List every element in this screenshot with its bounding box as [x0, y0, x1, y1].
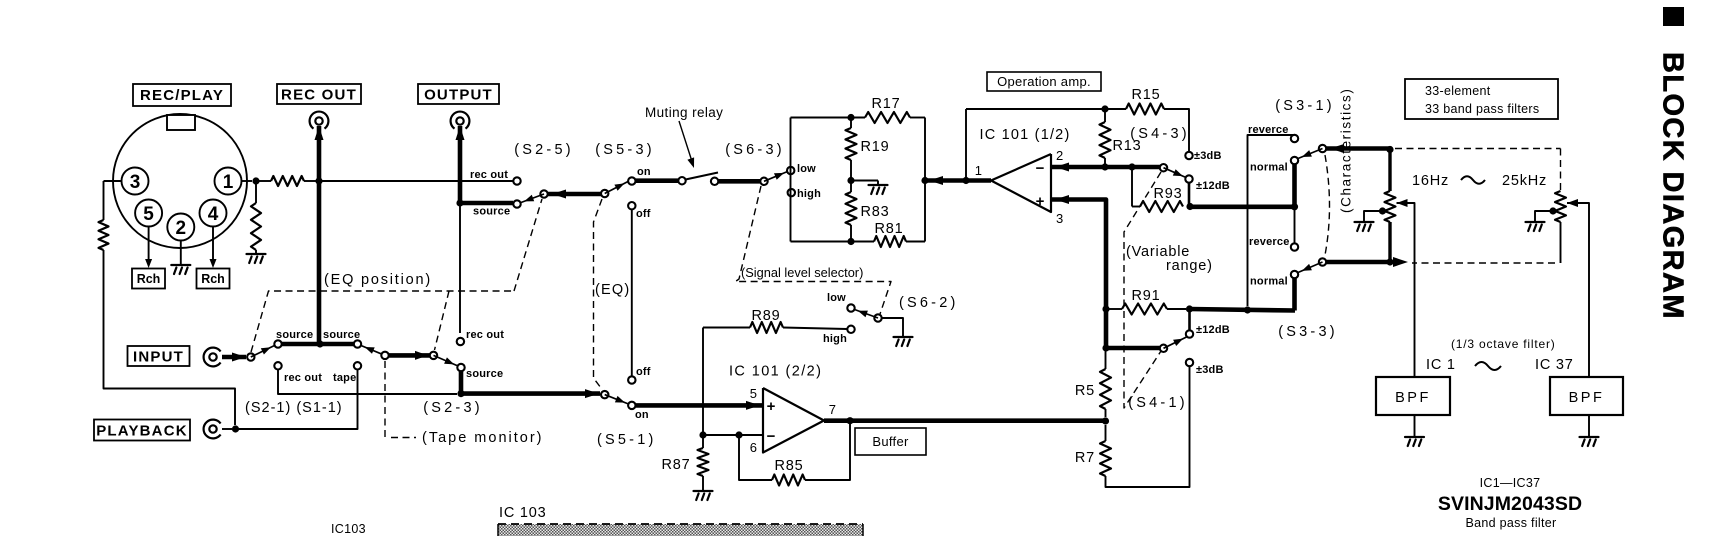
svg-text:(S4-3): (S4-3): [1130, 126, 1190, 142]
wire left rail down: [103, 181, 105, 220]
node op-amp output: [962, 177, 969, 184]
svg-text:high: high: [797, 188, 821, 200]
mech link tape monitor dashed: [384, 361, 386, 438]
resistor pin1 to ground: [251, 203, 261, 250]
contact high S6-3: [788, 189, 795, 196]
contact source S1-1: [354, 340, 361, 347]
svg-text:16Hz: 16Hz: [1412, 173, 1449, 189]
svg-text:rec out: rec out: [284, 372, 322, 384]
switch S6-3 blade to low: [764, 172, 788, 182]
arrow into pin2: [1055, 163, 1069, 172]
arrow into Rch right: [210, 259, 217, 268]
node R19/R83: [847, 177, 854, 184]
node R13 bottom: [1101, 163, 1108, 170]
svg-text:R87: R87: [662, 457, 691, 473]
switch S5-3 common contact: [601, 190, 608, 197]
svg-text:R91: R91: [1132, 288, 1161, 304]
resistor R15: [1126, 104, 1164, 115]
svg-text:4: 4: [208, 204, 219, 225]
contact source S2-1: [274, 340, 281, 347]
wire R17 to right rail: [910, 117, 925, 119]
svg-text:Rch: Rch: [137, 272, 161, 286]
wire plus12dB lower leg: [1188, 309, 1191, 331]
signal level resistor network left rail: [790, 118, 792, 242]
svg-text:(S5-3): (S5-3): [595, 142, 655, 158]
svg-text:Operation amp.: Operation amp.: [997, 74, 1091, 89]
svg-text:tape: tape: [333, 372, 356, 384]
wire minus input buffer: [703, 434, 763, 436]
svg-text:reverce: reverce: [1248, 124, 1289, 136]
contact normal S3-1: [1291, 157, 1298, 164]
node buffer output: [846, 417, 853, 424]
switch S6-2 blade: [855, 310, 879, 319]
Rch box left: [132, 269, 165, 289]
svg-text:(Characteristics): (Characteristics): [1339, 88, 1354, 213]
svg-text:REC/PLAY: REC/PLAY: [140, 87, 224, 104]
switch S2-5 common contact: [540, 190, 547, 197]
svg-text:SVINJM2043SD: SVINJM2043SD: [1438, 493, 1582, 515]
node buffer output joins: [1102, 417, 1109, 424]
arrow into pin3: [1055, 195, 1069, 204]
svg-text:1: 1: [223, 172, 234, 193]
ground R87: [694, 491, 713, 500]
connector REC/PLAY label box: [133, 84, 231, 106]
svg-text:(1/3 octave filter): (1/3 octave filter): [1451, 337, 1556, 351]
switch S6-2 common contact: [874, 314, 881, 321]
wire pin1 to junction: [242, 180, 253, 182]
arrow on wire pointing left to S2-5: [552, 190, 566, 199]
op-amp U2 IC101 2/2 buffer: [763, 388, 824, 453]
DIN pin 3: [122, 168, 149, 195]
contact on S5-1: [628, 402, 635, 409]
op-amp U1 IC101 1/2: [991, 154, 1051, 212]
thick wire OUTPUT to source contact: [460, 201, 513, 206]
svg-text:low: low: [797, 163, 816, 175]
svg-text:BPF: BPF: [1569, 390, 1605, 406]
resistor after pin1: [271, 176, 304, 186]
svg-text:1: 1: [975, 163, 982, 178]
svg-text:6: 6: [750, 440, 757, 455]
svg-text:Rch: Rch: [201, 272, 225, 286]
arrow up into OUTPUT jack: [456, 126, 465, 140]
svg-text:normal: normal: [1250, 162, 1288, 174]
wire pin4 down: [212, 227, 214, 263]
resistor R83: [850, 181, 852, 193]
node pin1 junction: [252, 177, 259, 184]
label 33-element box: [1405, 79, 1558, 119]
BPF box 1: [1376, 377, 1450, 415]
ground pin2: [171, 265, 190, 274]
contact S2-3 common: [430, 352, 437, 359]
mech link S2 dashed: [251, 291, 514, 352]
svg-text:(S2-1) (S1-1): (S2-1) (S1-1): [245, 400, 343, 416]
svg-text:±3dB: ±3dB: [1196, 364, 1224, 376]
svg-text:rec out: rec out: [466, 329, 504, 341]
node PLAYBACK: [232, 425, 239, 432]
ground under pin1 resistor: [255, 250, 257, 253]
thick wire INPUT to switch: [222, 355, 246, 360]
node S2-3 out: [457, 390, 464, 397]
wire resistor to REC OUT line: [304, 180, 319, 182]
node source bus: [316, 340, 323, 347]
node S4-1 tap: [1102, 344, 1109, 351]
svg-text:IC 101 (1/2): IC 101 (1/2): [980, 127, 1071, 143]
resistor left rail: [99, 220, 109, 250]
thick wire S2-5 to S5-3: [548, 192, 601, 197]
svg-text:(Signal level selector): (Signal level selector): [741, 265, 863, 280]
wire junction to resistor: [256, 180, 271, 182]
switch S2-1 blade: [251, 346, 275, 358]
svg-text:source: source: [323, 329, 360, 341]
contact S2-1 common: [247, 353, 254, 360]
ground BPF2: [1588, 415, 1590, 436]
switch S3-3 common contact: [1319, 258, 1326, 265]
pot 25kHz ground tap: [1549, 207, 1556, 214]
svg-text:±3dB: ±3dB: [1194, 150, 1222, 162]
node R91 right: [1186, 305, 1193, 312]
contact plus12dB S4-3: [1185, 175, 1192, 182]
wire R19 to node: [850, 160, 852, 181]
svg-text:R81: R81: [875, 221, 904, 237]
wire S6-2 to ground: [882, 318, 904, 336]
switch S2-3 blade: [434, 355, 459, 366]
node R17 left: [847, 114, 854, 121]
svg-text:+: +: [767, 398, 776, 415]
switch S6-3 common contact: [760, 178, 767, 185]
svg-text:33 band pass filters: 33 band pass filters: [1425, 102, 1539, 116]
svg-text:(S5-1): (S5-1): [597, 432, 657, 448]
svg-text:(S2-3): (S2-3): [423, 400, 483, 416]
svg-text:R15: R15: [1132, 87, 1161, 103]
svg-text:IC 1: IC 1: [1426, 357, 1456, 373]
svg-text:off: off: [636, 366, 651, 378]
node OUTPUT corner: [456, 199, 463, 206]
DIN pin 5: [135, 200, 162, 227]
node REC OUT on main wire: [315, 177, 322, 184]
ground pot 16Hz: [1355, 222, 1374, 231]
wire R93 left leg: [1131, 167, 1133, 207]
ground S6-2: [894, 337, 913, 346]
node R13 top: [1101, 105, 1108, 112]
svg-text:(S4-1): (S4-1): [1128, 395, 1188, 411]
contact off S5-1: [628, 376, 635, 383]
wire plus3dB down and around: [1106, 366, 1190, 487]
contact low S6-3: [787, 167, 794, 174]
svg-text:5: 5: [750, 386, 757, 401]
thick wire OUTPUT vertical: [458, 126, 463, 203]
switch S2-5 blade: [521, 194, 544, 203]
muting relay leader arrow: [679, 121, 693, 163]
potentiometer 16Hz: [1388, 150, 1391, 192]
node R85 tap: [735, 431, 742, 438]
svg-text:IC1—IC37: IC1—IC37: [1480, 476, 1541, 490]
contact reverce S3-3: [1291, 243, 1298, 250]
svg-text:(Tape monitor): (Tape monitor): [422, 430, 543, 446]
contact on S5-3: [628, 177, 635, 184]
svg-text:R19: R19: [861, 139, 890, 155]
resistor R91: [1122, 304, 1167, 315]
contact rec out S2-5: [513, 177, 520, 184]
contact plus12dB S4-1: [1186, 330, 1193, 337]
mech link S4 dashed: [1124, 172, 1161, 408]
ground BPF1: [1414, 415, 1416, 436]
svg-text:(S3-3): (S3-3): [1278, 324, 1338, 340]
svg-text:on: on: [637, 166, 651, 178]
node R81 left: [847, 238, 854, 245]
node filter top: [1386, 146, 1393, 153]
thick wire on to op-amp pin5: [635, 403, 763, 408]
DIN pin 4: [200, 200, 227, 227]
svg-text:±12dB: ±12dB: [1196, 180, 1230, 192]
svg-text:IC 37: IC 37: [1535, 357, 1574, 373]
wire R89 to high contact: [783, 328, 847, 330]
filter dashed box top: [1395, 148, 1561, 150]
thick wire R91 node to S3-3 rail: [1190, 309, 1296, 311]
wire pin1 junction down: [255, 181, 257, 203]
switch S5-3 blade to on: [605, 182, 628, 194]
svg-text:(S2-5): (S2-5): [514, 142, 574, 158]
label box REC OUT: [277, 84, 361, 104]
svg-text:(EQ): (EQ): [595, 282, 630, 298]
svg-text:PLAYBACK: PLAYBACK: [96, 423, 188, 440]
arrow into Rch left: [145, 259, 152, 268]
resistor R89: [750, 322, 783, 333]
switch S4-3 blade: [1164, 168, 1187, 178]
wire R83 to bottom: [850, 225, 852, 242]
svg-text:BPF: BPF: [1395, 390, 1431, 406]
svg-text:(S6-3): (S6-3): [725, 142, 785, 158]
muting relay blade open: [686, 173, 719, 180]
svg-text:source: source: [466, 368, 503, 380]
thick wire relay to S6-3: [718, 179, 761, 184]
thick wire S1-1 to S2-3: [388, 353, 430, 358]
resistor R19: [850, 118, 852, 129]
svg-text:R7: R7: [1075, 450, 1095, 466]
contact tape S1-1: [354, 362, 361, 369]
node network output: [921, 177, 928, 184]
thick wire normal S3-3 to rail: [1292, 278, 1297, 311]
svg-text:low: low: [827, 292, 846, 304]
svg-text:3: 3: [130, 172, 141, 193]
thick wire to S5-1 with arrow: [461, 391, 600, 396]
thick wire op-amp to network with arrow: [925, 178, 991, 183]
BPF box 2: [1550, 377, 1623, 415]
arrow into S3-1 common: [1330, 144, 1344, 153]
svg-text:7: 7: [829, 402, 836, 417]
DIN pin 1: [215, 168, 242, 195]
svg-text:normal: normal: [1250, 276, 1288, 288]
svg-text:−: −: [1036, 160, 1045, 177]
DIN pin 2: [167, 214, 194, 241]
filter dashed box right upper: [1560, 149, 1562, 192]
wire rec out S2-1 branch: [278, 369, 457, 394]
svg-text:INPUT: INPUT: [133, 349, 184, 366]
potentiometer 25kHz: [1560, 190, 1562, 192]
contact reverce S3-1: [1291, 135, 1298, 142]
contact relay right: [711, 178, 718, 185]
wire off to off: [631, 209, 633, 376]
node R91 left: [1102, 305, 1109, 312]
svg-text:R85: R85: [775, 458, 804, 474]
pot 25kHz wiper: [1567, 199, 1578, 207]
wire to R15: [1105, 108, 1126, 110]
switch S5-1 blade: [605, 395, 629, 404]
thick wire plus input: [1051, 200, 1106, 351]
contact source S2-5: [513, 200, 520, 207]
label tilde IC: [1475, 362, 1501, 370]
svg-text:off: off: [636, 208, 651, 220]
pot 16Hz wiper: [1397, 199, 1408, 207]
wire left rail to corner: [104, 250, 236, 425]
svg-text:range): range): [1166, 258, 1213, 274]
wire node down to reverce S3-3: [1294, 207, 1296, 243]
resistor R17: [865, 112, 910, 123]
contact S1-1 common: [381, 352, 388, 359]
thick source bus: [281, 342, 354, 347]
contact plus3dB S4-1: [1186, 359, 1193, 366]
node filter bottom: [1386, 258, 1393, 265]
switch S3-1 blade: [1298, 149, 1323, 159]
arrow up into REC OUT jack: [315, 126, 324, 140]
wire R89 left leg: [702, 328, 704, 436]
thick wire buffer output: [824, 418, 1106, 423]
label box OUTPUT: [418, 84, 499, 104]
wire rec-out branch on main line: [319, 180, 513, 182]
block diagram bullet square: [1663, 7, 1684, 26]
resistor R87: [698, 448, 709, 476]
wire pin5 down: [148, 227, 150, 263]
wire pin2 down: [180, 241, 182, 265]
svg-text:Buffer: Buffer: [872, 434, 909, 449]
switch S4-1 blade: [1164, 337, 1187, 348]
wire PLAYBACK to node: [222, 428, 232, 430]
ground mid network: [869, 185, 888, 194]
DIN connector body: [113, 114, 247, 248]
thick wire S2-3 down: [459, 371, 464, 395]
svg-text:IC 103: IC 103: [499, 505, 547, 521]
node R93 right: [1186, 203, 1193, 210]
svg-text:OUTPUT: OUTPUT: [424, 87, 493, 104]
svg-text:R17: R17: [872, 96, 901, 112]
thick wire S3-1 common to filter: [1326, 146, 1390, 151]
svg-text:source: source: [276, 329, 313, 341]
resistor R93: [1140, 201, 1183, 212]
thick wire to S4-1 common: [1106, 346, 1160, 351]
resistor R85: [772, 475, 805, 486]
svg-text:−: −: [767, 428, 776, 445]
node S3 mid: [1291, 203, 1298, 210]
arrow out to band pass filters: [1393, 257, 1408, 267]
svg-text:(S6-2): (S6-2): [899, 295, 959, 311]
thick wire on to relay: [635, 178, 679, 183]
svg-text:R89: R89: [752, 308, 781, 324]
svg-text:2: 2: [1056, 148, 1063, 163]
svg-text:R5: R5: [1075, 383, 1095, 399]
wire PLAYBACK to tape contact: [236, 369, 358, 429]
svg-text:Muting relay: Muting relay: [645, 105, 723, 120]
filter dashed box bottom: [1412, 262, 1555, 264]
node reverce rail bottom: [1244, 306, 1251, 313]
wire plus12dB down to node: [1188, 182, 1191, 206]
S3 left rail reverce wire: [1248, 135, 1295, 306]
network bottom wire: [791, 241, 875, 243]
svg-text:rec out: rec out: [470, 169, 508, 181]
thick wire S3-3 common right: [1326, 260, 1390, 265]
resistor R13: [1104, 109, 1106, 122]
wire R15 to corner: [1164, 109, 1189, 152]
svg-text:3: 3: [1056, 211, 1063, 226]
svg-text:33-element: 33-element: [1425, 84, 1491, 98]
wire R85 feedback: [805, 421, 850, 480]
IC103 hatched bar: [498, 524, 863, 536]
svg-text:5: 5: [143, 204, 154, 225]
resistor R7: [1100, 441, 1111, 476]
mech link S3 dashed: [1325, 155, 1330, 255]
svg-text:on: on: [635, 409, 649, 421]
thick wire R93 node to S3-1 normal rail: [1190, 205, 1295, 210]
svg-text:R83: R83: [861, 204, 890, 220]
jack OUTPUT: [456, 117, 463, 124]
thick wire minus input: [1051, 165, 1160, 170]
wire node to ground: [851, 180, 878, 182]
contact S5-1 common: [601, 391, 608, 398]
network top wire: [791, 117, 866, 119]
contact off S5-3: [628, 202, 635, 209]
jack PLAYBACK: [209, 425, 216, 432]
switch S1-1 blade: [361, 346, 385, 356]
contact relay left: [678, 177, 685, 184]
node R93 top: [1128, 163, 1135, 170]
ground pot 25kHz: [1526, 222, 1545, 231]
svg-text:IC 101 (2/2): IC 101 (2/2): [729, 364, 822, 380]
svg-text:IC103: IC103: [331, 522, 366, 536]
network right rail: [924, 118, 926, 242]
switch S3-3 blade: [1298, 262, 1323, 273]
svg-text:reverce: reverce: [1249, 236, 1290, 248]
contact plus3dB S4-3: [1185, 152, 1192, 159]
contact rec out lower: [457, 338, 464, 345]
contact high S6-2: [847, 326, 854, 333]
svg-text:high: high: [823, 333, 847, 345]
wire OUTPUT thin down to rec out contact: [459, 203, 461, 333]
contact source S2-3: [457, 364, 464, 371]
label box Operation amp: [987, 72, 1101, 91]
svg-text:Band pass filter: Band pass filter: [1466, 516, 1557, 530]
feedback top wire: [966, 108, 1105, 110]
Rch box right: [197, 269, 230, 289]
svg-text:BLOCK DIAGRAM: BLOCK DIAGRAM: [1657, 52, 1689, 320]
svg-text:(S3-1): (S3-1): [1275, 98, 1335, 114]
thick wire normal S3-1 down to node: [1292, 164, 1297, 207]
contact rec out S2-1: [274, 362, 281, 369]
pot 16Hz ground tap: [1379, 207, 1386, 214]
contact normal S3-3: [1291, 271, 1298, 278]
wire R81 to right rail: [906, 241, 925, 243]
label box Buffer: [855, 428, 926, 455]
svg-text:(EQ position): (EQ position): [324, 272, 432, 288]
resistor R81: [874, 236, 906, 247]
mech link S5 dashed: [594, 199, 603, 390]
thick wire REC OUT vertical: [317, 126, 322, 344]
svg-text:REC OUT: REC OUT: [281, 87, 357, 104]
mech link S6 dashed: [736, 186, 892, 314]
svg-text:+: +: [1036, 193, 1045, 210]
label box INPUT: [128, 346, 190, 366]
resistor R5: [1100, 369, 1111, 409]
label box PLAYBACK: [94, 420, 190, 441]
node R87 top: [699, 431, 706, 438]
contact low S6-2: [847, 304, 854, 311]
